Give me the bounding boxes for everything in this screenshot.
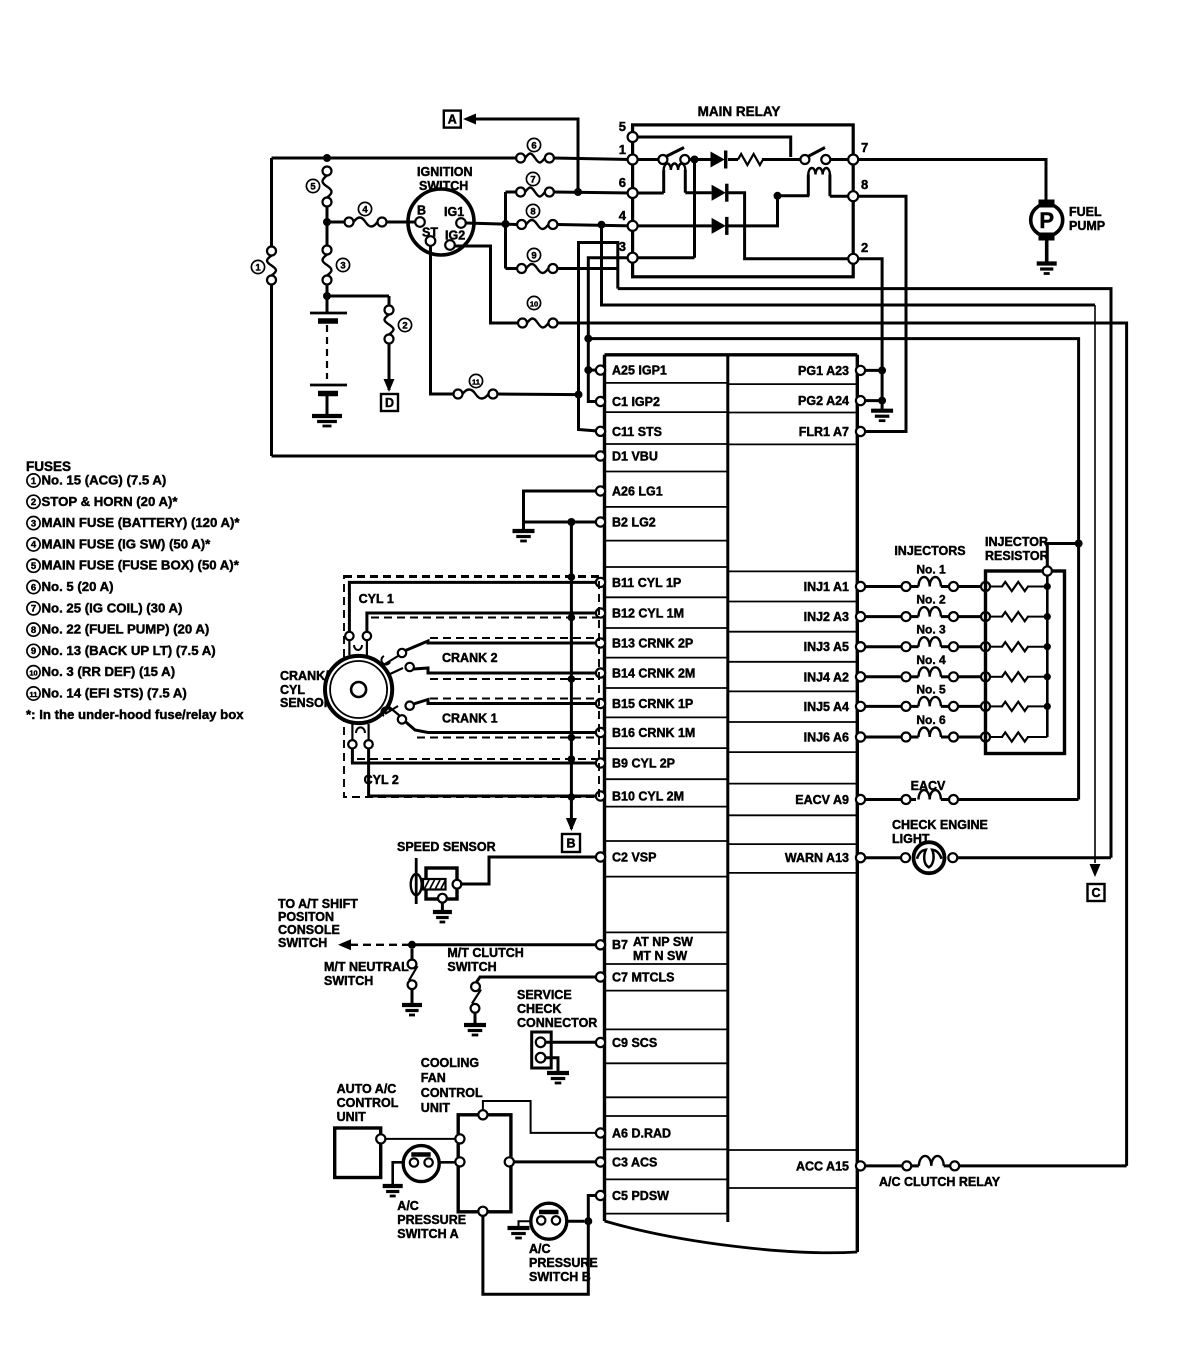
svg-text:CYL 2: CYL 2 (364, 773, 399, 787)
svg-text:B16 CRNK 1M: B16 CRNK 1M (612, 726, 695, 740)
fuse F6 label (527, 138, 540, 151)
wire diode3 riser (729, 196, 810, 226)
svg-text:8: 8 (530, 206, 535, 217)
arrow to connector C (1090, 864, 1101, 877)
svg-text:3: 3 (31, 518, 36, 529)
svg-text:No. 5 (20 A): No. 5 (20 A) (42, 579, 114, 594)
injectors No.1-6 (865, 563, 990, 742)
main relay pin 3 (619, 239, 638, 263)
junction node ignition feed (323, 218, 331, 226)
wire AC switch B to junction (566, 1220, 585, 1223)
fuse F9 label (527, 248, 540, 261)
wire IGP to A25 (588, 369, 600, 372)
junction node B7 (408, 941, 416, 949)
junction node switch1 out (691, 156, 699, 164)
svg-text:PG1 A23: PG1 A23 (798, 364, 849, 378)
wire battery junction to fuse 2 branch (327, 296, 389, 310)
ECU box (605, 355, 858, 1253)
svg-text:A26 LG1: A26 LG1 (612, 485, 663, 499)
injector resistor bus (1043, 566, 1052, 737)
fuse F4 label (358, 202, 371, 215)
diode D3 main relay (712, 217, 727, 235)
wire coil2 to pin8 (830, 195, 849, 198)
wire relay pin6 to coil1 (638, 192, 664, 195)
fuses legend list (26, 473, 244, 722)
ECU right pins (785, 364, 865, 1174)
svg-text:B14 CRNK 2M: B14 CRNK 2M (612, 667, 695, 681)
wire relay pin5 internal (638, 137, 791, 157)
wire C7 MTCLS (477, 977, 597, 982)
svg-text:No. 3 (RR DEF) (15 A): No. 3 (RR DEF) (15 A) (42, 664, 176, 679)
fuse F1 No.15 ACG (267, 247, 276, 285)
svg-text:B13 CRNK 2P: B13 CRNK 2P (612, 637, 693, 651)
svg-text:P: P (1039, 208, 1054, 233)
svg-text:CHECK: CHECK (517, 1002, 561, 1016)
shield dashed boundary (344, 576, 599, 797)
svg-text:11: 11 (30, 690, 38, 699)
svg-text:C2 VSP: C2 VSP (612, 851, 656, 865)
svg-text:2: 2 (31, 497, 36, 508)
shield junction dots (568, 573, 576, 801)
wire fuse1 down to D1 VBU row (270, 285, 273, 457)
svg-text:INJ4 A2: INJ4 A2 (804, 670, 849, 684)
wire dashed to AT shift (350, 944, 412, 946)
svg-text:STOP & HORN (20 A)*: STOP & HORN (20 A)* (42, 494, 179, 509)
wire AC switch A ground (393, 1162, 404, 1185)
wire fuse3 to battery junction (326, 285, 329, 297)
svg-text:CONNECTOR: CONNECTOR (517, 1016, 597, 1030)
wire resistor to switch2 (762, 158, 800, 161)
svg-text:TO A/T SHIFT: TO A/T SHIFT (278, 897, 358, 911)
svg-text:11: 11 (472, 377, 480, 386)
ECU pin B7 (596, 935, 693, 963)
svg-text:INJ1 A1: INJ1 A1 (804, 580, 849, 594)
svg-text:CONTROL: CONTROL (337, 1096, 399, 1110)
svg-text:No. 15 (ACG) (7.5 A): No. 15 (ACG) (7.5 A) (42, 473, 167, 488)
svg-text:No. 5: No. 5 (916, 682, 946, 696)
CYL 2 label (364, 773, 399, 787)
svg-text:UNIT: UNIT (337, 1110, 367, 1124)
svg-text:CRANK/: CRANK/ (280, 669, 329, 683)
relay switch 2 (800, 148, 830, 165)
junction node IGP branch top (584, 335, 592, 343)
wire B7 (412, 943, 596, 946)
CYL 1 label (359, 592, 394, 606)
svg-text:CRANK 2: CRANK 2 (442, 651, 498, 665)
diode D2 main relay (712, 184, 727, 202)
svg-text:PUMP: PUMP (1069, 219, 1105, 233)
wire resistor common feed (1047, 544, 1078, 567)
svg-text:6: 6 (31, 582, 36, 593)
AC pressure switch A (403, 1146, 439, 1182)
main relay box (633, 125, 854, 277)
wire fuse7 to relay pin6 (554, 192, 631, 193)
ECU left column row separators (605, 383, 728, 1214)
ground LG bus (513, 531, 535, 541)
wire IGP to injector resistor net (588, 339, 1078, 800)
wire switch1 to diode1 (689, 158, 710, 161)
junction node battery top (323, 292, 331, 300)
injector resistor label (985, 535, 1049, 563)
svg-text:No. 14 (EFI STS) (7.5 A): No. 14 (EFI STS) (7.5 A) (42, 686, 187, 701)
fuse F2 label (398, 318, 411, 331)
svg-text:2: 2 (861, 240, 868, 255)
svg-text:RESISTOR: RESISTOR (985, 549, 1049, 563)
svg-text:*: In the under-hood fuse/rela: *: In the under-hood fuse/relay box (26, 707, 244, 722)
svg-text:A: A (448, 113, 457, 127)
wire CYL1 M to B12 (367, 613, 596, 632)
auto AC unit label (337, 1082, 399, 1124)
injector resistor elements (990, 582, 1051, 742)
svg-text:6: 6 (619, 175, 626, 190)
wire CRANK2 P to B13 (406, 641, 597, 651)
junction node PG2 (878, 397, 886, 405)
svg-text:CYL 1: CYL 1 (359, 592, 394, 606)
wire relay pin7 to fuel pump (858, 160, 1046, 200)
svg-text:MAIN FUSE (IG SW) (50 A)*: MAIN FUSE (IG SW) (50 A)* (42, 536, 212, 551)
svg-text:INJ3 A5: INJ3 A5 (804, 640, 849, 654)
svg-text:PG2 A24: PG2 A24 (798, 394, 849, 408)
svg-text:5: 5 (31, 561, 37, 572)
ground fuel pump (1037, 264, 1057, 274)
ground AC pressure switch A (383, 1186, 403, 1196)
wire fuse 2 to connector D (388, 344, 391, 391)
cooling fan control unit box (455, 1110, 514, 1216)
MT neutral switch label (324, 960, 409, 988)
svg-text:No. 2: No. 2 (916, 593, 946, 607)
svg-text:INJECTORS: INJECTORS (894, 544, 965, 558)
svg-text:MAIN FUSE (BATTERY) (120 A)*: MAIN FUSE (BATTERY) (120 A)* (42, 515, 241, 530)
main relay label (698, 104, 781, 119)
CYL2 pickup (348, 724, 373, 749)
wire fuse7 branch vertical (504, 192, 507, 269)
svg-text:INJECTOR: INJECTOR (985, 535, 1048, 549)
CYL1 pickup (345, 632, 371, 655)
svg-text:SWITCH: SWITCH (419, 179, 468, 193)
wire switch2 to pin7 (830, 158, 848, 161)
svg-text:No. 6: No. 6 (916, 713, 946, 727)
service check connector label (517, 988, 597, 1030)
battery (310, 296, 347, 414)
ground PG1 PG2 (871, 411, 893, 421)
svg-text:A25 IGP1: A25 IGP1 (612, 364, 667, 378)
wire relay pin2 to power ground (858, 259, 882, 410)
svg-text:IG2: IG2 (445, 229, 465, 243)
svg-text:4: 4 (31, 540, 37, 551)
ignition switch terminal ST (422, 226, 438, 246)
connector B box (562, 834, 580, 852)
wire A26 LG1 ground (524, 491, 597, 522)
svg-text:D: D (385, 396, 394, 410)
svg-text:FLR1 A7: FLR1 A7 (799, 425, 849, 439)
svg-text:M/T CLUTCH: M/T CLUTCH (447, 946, 523, 960)
wire ST terminal down (431, 246, 454, 394)
service check connector (532, 1032, 552, 1068)
svg-text:B10 CYL 2M: B10 CYL 2M (612, 790, 684, 804)
wire shield drain vertical (570, 522, 573, 829)
svg-text:AUTO A/C: AUTO A/C (337, 1082, 397, 1096)
ignition switch terminal IG2 (445, 229, 465, 250)
svg-text:4: 4 (619, 208, 627, 223)
fuse F8 No.22 fuel pump (517, 220, 557, 229)
svg-text:7: 7 (530, 174, 535, 185)
fuse F3 main fuse battery (323, 246, 332, 285)
CRANK 1 label (442, 712, 498, 726)
main relay pin 5 (619, 119, 638, 142)
junction node AC switch B (584, 1217, 592, 1225)
wire IG2 to fuse 10 (455, 246, 518, 323)
wire cooling fan top to A6 DRAD (483, 1101, 596, 1133)
speed sensor (411, 858, 462, 904)
shield dashed lines (344, 577, 599, 759)
AC clutch relay (865, 1156, 1127, 1171)
ground service check connector (547, 1073, 569, 1083)
wire AC switch A to unit (439, 1161, 455, 1164)
wire IGP net from pin3 (588, 258, 628, 402)
fuse F4 main fuse IG SW (345, 218, 387, 227)
svg-text:3: 3 (340, 260, 345, 271)
ground battery (312, 416, 342, 426)
svg-text:C9 SCS: C9 SCS (612, 1036, 657, 1050)
wire battery positive top horizontal (272, 157, 521, 160)
svg-text:No. 3: No. 3 (916, 623, 946, 637)
wire LG stem (522, 522, 525, 531)
fuse F3 label (336, 258, 349, 271)
MT neutral switch (408, 949, 418, 1004)
svg-text:INJ5 A4: INJ5 A4 (804, 700, 849, 714)
wire auto AC to cooling fan unit (385, 1138, 455, 1140)
svg-text:B: B (417, 204, 426, 218)
junction node shield drain (567, 518, 575, 526)
svg-text:CONSOLE: CONSOLE (278, 923, 340, 937)
MT clutch switch (471, 982, 481, 1024)
svg-text:10: 10 (530, 299, 538, 308)
connector C box (1088, 884, 1105, 901)
wire fuse6 to relay pin1 (554, 158, 631, 160)
svg-text:No. 1: No. 1 (916, 563, 946, 577)
arrow to connector A (463, 114, 476, 125)
wire between fuse5 and junction (326, 207, 329, 223)
svg-text:A/C: A/C (529, 1242, 551, 1256)
wire IG1 to fuse 8 (466, 223, 517, 225)
wire fuse11 to STS junction (498, 393, 579, 397)
wire relay pin8 to FLR1 (858, 196, 906, 431)
svg-text:IGNITION: IGNITION (417, 165, 473, 179)
svg-text:A6 D.RAD: A6 D.RAD (612, 1127, 671, 1141)
ignition switch terminal B (415, 204, 426, 227)
wire AC switch B ground (519, 1221, 532, 1227)
wire B2 LG2 ground (524, 521, 597, 524)
crank cyl sensor body (325, 656, 392, 723)
svg-text:WARN A13: WARN A13 (785, 851, 849, 865)
ignition switch body (408, 189, 474, 255)
main relay pin 4 (619, 208, 638, 231)
relay switch 1 (658, 148, 689, 165)
svg-text:7: 7 (31, 604, 36, 615)
main relay pin 6 (619, 175, 638, 198)
ground AC pressure switch B (508, 1228, 530, 1238)
svg-text:INJ6 A6: INJ6 A6 (804, 731, 849, 745)
fuse F7 label (526, 172, 539, 185)
svg-text:SERVICE: SERVICE (517, 988, 572, 1002)
wire fuse4 to ignition switch B (387, 221, 416, 224)
ECU left pins (596, 364, 695, 1203)
svg-text:SWITCH: SWITCH (447, 960, 496, 974)
svg-text:1: 1 (619, 142, 626, 157)
main relay pin 1 (619, 142, 638, 165)
junction node fuse7 connector A branch (574, 188, 582, 196)
fuses legend title (26, 459, 71, 474)
svg-text:1: 1 (255, 262, 261, 273)
svg-text:MT N SW: MT N SW (633, 949, 687, 963)
wire to connector A (476, 119, 578, 192)
injectors label (894, 544, 965, 558)
junction node injector resistor feed (1075, 540, 1083, 548)
connector A box (444, 111, 461, 128)
arrow to connector B (566, 818, 577, 831)
ignition switch terminal IG1 (444, 205, 466, 228)
wire CRANK1 P to B15 (414, 700, 597, 705)
injector resistor box (986, 571, 1065, 754)
wire fuse8 to relay pin4 (557, 225, 630, 226)
svg-text:FUEL: FUEL (1069, 205, 1102, 219)
svg-text:No. 13 (BACK UP LT) (7.5 A): No. 13 (BACK UP LT) (7.5 A) (42, 643, 216, 658)
svg-text:C11 STS: C11 STS (612, 425, 662, 439)
svg-text:5: 5 (619, 119, 626, 134)
wire coil1 to diode2 (685, 191, 711, 194)
svg-text:7: 7 (861, 140, 868, 155)
wire relay pin3 internal (638, 256, 695, 259)
wire net C11 fuse9 riser (579, 243, 618, 395)
svg-text:9: 9 (531, 250, 536, 261)
svg-text:ACC A15: ACC A15 (796, 1159, 849, 1173)
svg-text:CHECK ENGINE: CHECK ENGINE (892, 818, 988, 832)
CRANK 2 label (442, 651, 498, 665)
fuse F5 main fuse box (323, 167, 332, 207)
svg-text:SWITCH B: SWITCH B (529, 1270, 591, 1284)
diode D1 main relay (711, 151, 726, 169)
wire PG1 to ground bus (865, 369, 882, 372)
svg-text:EACV A9: EACV A9 (795, 793, 849, 807)
svg-text:A/C CLUTCH RELAY: A/C CLUTCH RELAY (879, 1175, 1001, 1189)
junction node PG1 (878, 366, 886, 374)
ground MT neutral switch (402, 1005, 422, 1015)
svg-text:B7: B7 (612, 938, 628, 952)
svg-text:C: C (1091, 886, 1100, 900)
sensor label (280, 669, 333, 710)
fuel pump label (1069, 205, 1105, 233)
junction node diode3 coil2 (774, 192, 782, 200)
wire cooling fan to C3 ACS (514, 1160, 596, 1163)
svg-text:A/C: A/C (397, 1199, 419, 1213)
wire fuse10 long to AC clutch relay riser (558, 323, 1127, 1166)
svg-text:MAIN RELAY: MAIN RELAY (698, 104, 781, 119)
check engine light label (892, 818, 988, 846)
fuse F6 No.5 (516, 154, 554, 163)
wire CEL power net (618, 289, 1111, 858)
svg-text:2: 2 (402, 320, 407, 331)
wire pin3 riser (693, 160, 696, 258)
fuse F2 stop and horn (385, 306, 394, 344)
EACV label (911, 779, 946, 793)
wire relay pin4 to diode3 (638, 224, 712, 227)
junction node STS (575, 391, 583, 399)
wire cooling fan bottom to C5 PDSW (483, 1196, 596, 1295)
wire SCS to C9 (545, 1041, 596, 1044)
MT clutch switch label (447, 946, 523, 974)
ground speed sensor (433, 912, 452, 922)
svg-text:C3 ACS: C3 ACS (612, 1156, 657, 1170)
wire connector C drop (1094, 305, 1096, 863)
ignition switch label (417, 165, 473, 193)
svg-text:5: 5 (310, 181, 316, 192)
svg-text:SWITCH: SWITCH (278, 936, 327, 950)
wire relay pin1 to switch (638, 158, 659, 161)
svg-text:IG1: IG1 (444, 205, 464, 219)
main relay pin 8 (848, 177, 868, 201)
connector D box (381, 394, 398, 411)
AC clutch relay label (879, 1175, 1001, 1189)
fuse F8 label (526, 204, 539, 217)
wire STS junction to C11 (579, 395, 601, 432)
AC pressure switch B label (529, 1242, 598, 1284)
svg-text:No. 4: No. 4 (916, 653, 946, 667)
fuse F9 No.13 back up lt (517, 264, 557, 273)
AC pressure switch A label (397, 1199, 466, 1241)
fuse F11 label (469, 374, 482, 387)
fuse F10 label (527, 296, 540, 309)
svg-text:1: 1 (31, 476, 37, 487)
wire left branch vertical to fuse 1 (270, 158, 273, 251)
cooling fan unit label (421, 1056, 483, 1115)
svg-text:MAIN FUSE (FUSE BOX) (50 A)*: MAIN FUSE (FUSE BOX) (50 A)* (42, 558, 240, 573)
svg-text:M/T NEUTRAL: M/T NEUTRAL (324, 960, 409, 974)
svg-text:FAN: FAN (421, 1071, 446, 1085)
fuse F5 label (306, 179, 319, 192)
auto AC control unit box (335, 1128, 386, 1178)
svg-text:8: 8 (861, 177, 868, 192)
svg-text:PRESSURE: PRESSURE (397, 1213, 466, 1227)
check engine light (865, 842, 1111, 873)
wire CYL2 P to B9 (352, 749, 596, 764)
junction node IG1 branch (502, 220, 510, 228)
ECU right column row separators (728, 384, 858, 1188)
svg-text:C5 PDSW: C5 PDSW (612, 1189, 669, 1203)
svg-text:B15 CRNK 1P: B15 CRNK 1P (612, 697, 693, 711)
svg-text:No. 25 (IG COIL) (30 A): No. 25 (IG COIL) (30 A) (42, 600, 183, 615)
svg-text:B11 CYL 1P: B11 CYL 1P (612, 576, 681, 590)
svg-text:ST: ST (422, 226, 438, 240)
arrow to AT shift switch (338, 939, 351, 950)
junction node fuse8 pin5 branch (598, 221, 606, 229)
svg-text:10: 10 (29, 669, 37, 678)
svg-text:CRANK 1: CRANK 1 (442, 712, 498, 726)
svg-text:4: 4 (362, 204, 368, 215)
wire CYL2 M to B10 (369, 749, 596, 797)
AT shift label (278, 897, 358, 950)
svg-text:6: 6 (531, 140, 536, 151)
wire speed sensor to C2 VSP (460, 857, 596, 884)
wire IG1 net to connector C (602, 225, 1096, 305)
ground MT clutch switch (464, 1025, 486, 1035)
svg-text:B2 LG2: B2 LG2 (612, 516, 656, 530)
svg-text:PRESSURE: PRESSURE (529, 1256, 598, 1270)
svg-text:3: 3 (619, 239, 626, 254)
junction node IGP A25 (584, 366, 592, 374)
svg-text:9: 9 (31, 646, 36, 657)
junction node battery feed (323, 154, 331, 162)
svg-text:EACV: EACV (911, 779, 946, 793)
